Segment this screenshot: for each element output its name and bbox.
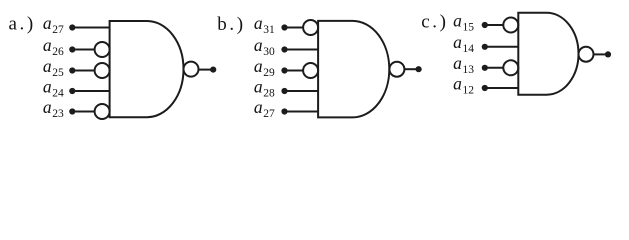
- input terminal dot a27 (part b): [281, 108, 287, 114]
- svg-text:a: a: [453, 53, 462, 73]
- svg-text:12: 12: [463, 84, 475, 96]
- svg-text:23: 23: [52, 108, 64, 120]
- wire a26 to bubble: [72, 49, 94, 51]
- svg-text:30: 30: [263, 46, 275, 58]
- input terminal dot a31: [281, 24, 287, 30]
- input label a15: [453, 10, 474, 33]
- input terminal dot a24: [69, 88, 75, 94]
- output bubble gate C: [579, 47, 594, 62]
- input label a31: [254, 13, 275, 36]
- input terminal dot a29: [281, 67, 287, 73]
- wire a29 to bubble: [285, 70, 304, 72]
- input terminal dot a26: [69, 46, 75, 52]
- wire a31 to bubble: [285, 27, 304, 29]
- output bubble gate A: [184, 62, 199, 77]
- svg-text:27: 27: [52, 24, 64, 36]
- output wire gate C: [594, 53, 609, 55]
- wire a25 to bubble: [72, 70, 94, 72]
- input label a29: [254, 56, 275, 79]
- svg-text:26: 26: [52, 46, 64, 58]
- input label a23: [43, 97, 64, 120]
- output bubble gate B: [389, 62, 404, 77]
- svg-text:29: 29: [263, 67, 275, 79]
- wire a23 to bubble: [72, 111, 94, 113]
- input terminal dot a15: [482, 22, 488, 28]
- svg-text:a: a: [43, 13, 52, 33]
- svg-text:b.): b.): [217, 14, 245, 35]
- svg-text:a: a: [43, 35, 52, 55]
- wire a15 to bubble: [485, 24, 504, 26]
- input terminal dot a25: [69, 67, 75, 73]
- svg-text:25: 25: [52, 67, 64, 79]
- input terminal dot a12: [482, 85, 488, 91]
- svg-text:c.): c.): [421, 12, 448, 33]
- input label a30: [254, 35, 275, 58]
- input terminal dot a23: [69, 108, 75, 114]
- input terminal dot a14: [482, 44, 488, 50]
- NAND gate C body: [518, 13, 578, 95]
- inverted input bubble a25: [95, 63, 110, 78]
- svg-text:a: a: [43, 76, 52, 96]
- wire a24 to gate A: [72, 90, 109, 92]
- svg-text:a: a: [453, 73, 462, 93]
- input terminal dot a27: [69, 24, 75, 30]
- NAND gate B body: [318, 21, 389, 118]
- svg-text:13: 13: [463, 64, 475, 76]
- inverted input bubble a29: [303, 63, 318, 78]
- input label a27 (part b): [254, 97, 275, 120]
- wire a12 to gate C: [485, 87, 519, 89]
- output node dot gate A: [210, 67, 216, 73]
- inverted input bubble a15: [503, 18, 518, 33]
- output node dot gate C: [605, 51, 611, 57]
- wire a13 to bubble: [485, 67, 504, 69]
- inverted input bubble a26: [95, 42, 110, 57]
- input terminal dot a30: [281, 46, 287, 52]
- svg-text:28: 28: [263, 87, 275, 99]
- svg-text:a: a: [43, 97, 52, 117]
- input label a25: [43, 56, 64, 79]
- input label a26: [43, 35, 64, 58]
- svg-text:a: a: [254, 97, 263, 117]
- svg-text:27: 27: [263, 108, 275, 120]
- wire a28 to gate B: [285, 90, 319, 92]
- input label a12: [453, 73, 474, 96]
- NAND gate A body: [110, 21, 184, 117]
- svg-text:a: a: [43, 56, 52, 76]
- input terminal dot a28: [281, 88, 287, 94]
- svg-text:14: 14: [463, 43, 475, 55]
- svg-text:a: a: [254, 76, 263, 96]
- svg-text:24: 24: [52, 87, 64, 99]
- svg-text:31: 31: [263, 24, 275, 36]
- svg-text:a.): a.): [9, 14, 36, 35]
- input label a27: [43, 13, 64, 36]
- wire a30 to gate B: [285, 49, 319, 51]
- wire a27 to gate B: [285, 111, 319, 113]
- svg-text:a: a: [453, 32, 462, 52]
- output wire gate A: [199, 69, 214, 71]
- inverted input bubble a31: [303, 20, 318, 35]
- svg-text:a: a: [254, 35, 263, 55]
- output node dot gate B: [416, 66, 422, 72]
- inverted input bubble a13: [503, 60, 518, 75]
- input label a28: [254, 76, 275, 99]
- svg-text:a: a: [254, 13, 263, 33]
- svg-text:a: a: [254, 56, 263, 76]
- svg-text:a: a: [453, 10, 462, 30]
- inverted input bubble a23: [95, 104, 110, 119]
- wire a27 to gate A: [72, 27, 109, 29]
- wire a14 to gate C: [485, 46, 519, 48]
- input label a14: [453, 32, 474, 55]
- input label a13: [453, 53, 474, 76]
- svg-text:15: 15: [463, 21, 475, 33]
- input terminal dot a13: [482, 65, 488, 71]
- input label a24: [43, 76, 64, 99]
- output wire gate B: [404, 68, 418, 70]
